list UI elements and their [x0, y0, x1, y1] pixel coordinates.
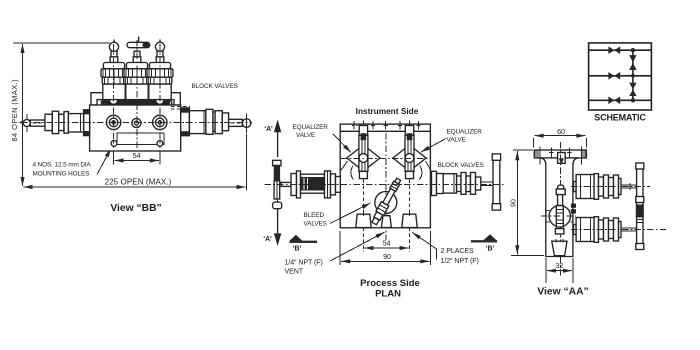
- hex nuts right: [206, 109, 213, 134]
- top block valve left (knob): [101, 40, 127, 100]
- section arrow A bottom: [263, 209, 281, 247]
- equalizer valve left (plan): [347, 126, 380, 253]
- center dashed line vertical: [385, 133, 387, 240]
- vertical centerline: [560, 142, 562, 276]
- centerline equalizer row: [341, 157, 430, 159]
- port left (plan bottom): [356, 212, 371, 228]
- left side block valve: [18, 111, 83, 133]
- center port hole: [132, 118, 141, 127]
- port center (plan bottom): [381, 216, 391, 228]
- stem rod left: [30, 120, 45, 126]
- svg-text:2 PLACES: 2 PLACES: [441, 247, 474, 255]
- top block valve center (T-bar): [124, 37, 150, 100]
- passage arcs left equalizer: [340, 161, 347, 171]
- svg-text:MOUNTING HOLES: MOUNTING HOLES: [33, 171, 90, 178]
- top flange: [534, 150, 586, 158]
- svg-text:225 OPEN (MAX.): 225 OPEN (MAX.): [105, 177, 172, 186]
- svg-text:BLOCK VALVES: BLOCK VALVES: [192, 83, 238, 90]
- junction dot top: [631, 48, 635, 52]
- port right (plan bottom): [402, 212, 417, 228]
- svg-text:Instrument Side: Instrument Side: [356, 106, 419, 116]
- svg-text:BLEED: BLEED: [304, 212, 325, 219]
- dimension 84 OPEN (MAX.) vertical: [10, 43, 110, 186]
- svg-text:32: 32: [556, 261, 564, 270]
- valve symbol line 1: [608, 46, 614, 54]
- svg-text:54: 54: [383, 239, 391, 248]
- valve symbol vertical upper: [629, 55, 636, 62]
- manifold body plan: [340, 124, 430, 228]
- svg-text:VALVE: VALVE: [296, 132, 315, 139]
- right flange: [181, 108, 190, 136]
- gland boss under flange: [558, 153, 566, 165]
- ports between valves on body edge: [571, 204, 576, 208]
- line 2: [589, 75, 652, 77]
- valve symbol line 3: [608, 97, 614, 105]
- section arrow B left: [289, 235, 317, 253]
- valve symbol line 2: [608, 72, 614, 80]
- block valve right (plan): [432, 154, 501, 210]
- valve symbol vertical lower: [629, 83, 636, 90]
- svg-text:‘B’: ‘B’: [293, 246, 302, 253]
- dimension 90 (view AA): [508, 150, 544, 255]
- scallop strip: [97, 100, 174, 107]
- centerline vertical left valve: [113, 44, 115, 148]
- junction dot middle: [631, 74, 635, 78]
- svg-text:View “AA”: View “AA”: [537, 287, 588, 298]
- tick marks on top strip: [352, 120, 421, 129]
- leader vent: [330, 232, 384, 261]
- dimension 54 (plan): [364, 239, 408, 248]
- dimension 90 (plan): [340, 231, 430, 265]
- passage arcs right equalizer: [425, 161, 430, 171]
- svg-text:EQUALIZER: EQUALIZER: [293, 124, 329, 131]
- svg-text:4 NOS. 12.5 mm DIA: 4 NOS. 12.5 mm DIA: [33, 162, 92, 169]
- svg-text:‘B’: ‘B’: [486, 246, 495, 253]
- bolt hole left: [106, 115, 120, 129]
- horizontal centerline center valve: [541, 215, 576, 217]
- svg-text:‘A’: ‘A’: [264, 126, 273, 133]
- centerline vertical right valve: [159, 44, 161, 148]
- pull ring right: [245, 114, 247, 134]
- line 3: [589, 99, 652, 101]
- block valve top right (view AA): [571, 163, 650, 206]
- label equalizer left: [293, 124, 352, 153]
- gland cylinder left: [68, 114, 83, 132]
- block valve left (plan): [291, 171, 340, 198]
- label bleed valves: [304, 203, 371, 228]
- svg-text:View “BB”: View “BB”: [110, 203, 161, 214]
- svg-text:VALVES: VALVES: [304, 221, 327, 228]
- vent valve on section line (plan left): [273, 160, 282, 208]
- bolt hole right: [153, 115, 167, 129]
- inner recess outline: [117, 133, 164, 144]
- svg-text:BLOCK VALVES: BLOCK VALVES: [438, 162, 484, 169]
- line 1: [589, 49, 652, 51]
- svg-text:EQUALIZER: EQUALIZER: [447, 129, 483, 136]
- bleed valve diagonal: [370, 177, 402, 225]
- top block valve right (knob): [147, 40, 173, 100]
- mounting hole bottom right: [157, 141, 163, 147]
- centerline horizontal BB: [21, 122, 252, 124]
- stem rod (plan left): [281, 182, 293, 186]
- pull ring left: [26, 114, 28, 132]
- body outline: [541, 158, 579, 257]
- svg-text:Process Side: Process Side: [360, 278, 420, 289]
- svg-text:SCHEMATIC: SCHEMATIC: [594, 113, 646, 123]
- center valve (view AA): [546, 185, 573, 234]
- junction dot bottom: [631, 98, 635, 102]
- dimension 225 OPEN (MAX.) horizontal: [24, 134, 247, 191]
- svg-text:VENT: VENT: [285, 267, 304, 275]
- svg-text:90: 90: [383, 252, 391, 261]
- stem rod right: [229, 119, 243, 126]
- centerline horizontal plan: [265, 183, 506, 185]
- svg-text:PLAN: PLAN: [375, 289, 401, 300]
- svg-text:90: 90: [508, 199, 517, 207]
- right side block valve: [189, 109, 251, 134]
- svg-text:54: 54: [133, 151, 141, 160]
- svg-text:60: 60: [557, 127, 565, 136]
- hidden port lines right: [171, 106, 190, 108]
- svg-text:1/2″ NPT (F): 1/2″ NPT (F): [441, 257, 479, 265]
- bottom port (view AA): [552, 239, 567, 256]
- equalizing vertical line: [632, 50, 634, 100]
- hex nuts left: [45, 114, 52, 130]
- centerline vertical center valve: [136, 40, 138, 148]
- label equalizer right: [421, 129, 482, 153]
- svg-text:VALVE: VALVE: [447, 136, 466, 143]
- dimension 32: [546, 258, 573, 283]
- svg-text:1/4″ NPT (F): 1/4″ NPT (F): [285, 259, 323, 267]
- left flange: [84, 110, 90, 136]
- top strip line: [340, 130, 430, 132]
- leader 2 places: [412, 233, 436, 249]
- manifold body: [90, 105, 181, 151]
- dimension 54: [114, 149, 160, 165]
- svg-text:‘A’: ‘A’: [263, 236, 272, 243]
- block valve bottom right (view AA): [571, 205, 666, 250]
- section arrow A top: [264, 120, 281, 158]
- mounting hole bottom left: [111, 141, 117, 147]
- valve seat circles on strip: [110, 96, 118, 104]
- schematic box: [589, 43, 652, 110]
- dimension 60: [534, 127, 587, 148]
- manifold step block: [91, 93, 180, 105]
- svg-text:84 OPEN (MAX.): 84 OPEN (MAX.): [10, 79, 19, 142]
- gland cylinder right: [189, 111, 206, 134]
- equalizer valve right (plan): [393, 126, 426, 253]
- section arrow B right: [471, 234, 497, 252]
- leader mounting holes: [33, 149, 112, 178]
